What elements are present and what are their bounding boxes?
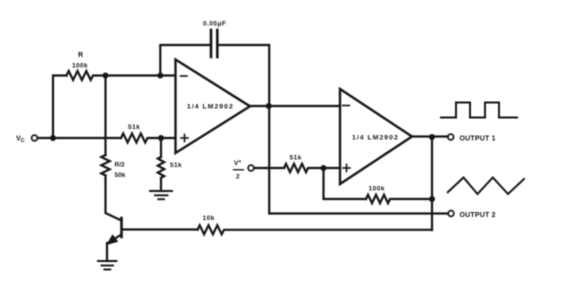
svg-text:51k: 51k: [290, 155, 302, 162]
wire capacitor to U1 output: [219, 45, 270, 106]
wire VC line: [38, 137, 122, 139]
resistor 100k: [366, 195, 432, 203]
svg-text:100k: 100k: [369, 186, 385, 193]
ground (under 51k): [150, 191, 172, 199]
svg-text:51k: 51k: [128, 124, 140, 131]
wire -in node to capacitor branch: [160, 45, 209, 76]
svg-text:1/4 LM2902: 1/4 LM2902: [352, 135, 399, 142]
svg-text:R: R: [78, 52, 83, 59]
op-amp U2 1/4 LM2902: [340, 89, 412, 184]
svg-text:100k: 100k: [72, 63, 88, 70]
wire +in U2 down to 100k: [324, 168, 367, 199]
svg-text:51k: 51k: [170, 162, 182, 169]
node dot (+in U1 / 51k junction): [158, 135, 164, 141]
node dot (cap branch junction): [157, 73, 163, 79]
wire U1 output to U2 -in: [250, 105, 340, 107]
wire U1 output down to OUTPUT 2 line: [269, 106, 448, 214]
emitter with arrow: [109, 235, 122, 243]
node dot (R right / -in junction): [103, 73, 109, 79]
svg-text:OUTPUT 1: OUTPUT 1: [460, 136, 496, 143]
terminal OUTPUT 2: [448, 211, 496, 219]
wire V+/2 to 51k: [254, 167, 284, 169]
node dot (VC input junction): [50, 135, 56, 141]
node dot (U2 output): [429, 134, 435, 140]
minus symbol U2: [343, 105, 350, 107]
plus symbol U2: [343, 165, 350, 172]
terminal VC: [16, 135, 37, 144]
resistor 10k: [198, 225, 433, 234]
wire +in node to 51k ground resistor: [160, 138, 162, 157]
svg-text:50k: 50k: [115, 172, 126, 179]
square wave symbol: [441, 103, 517, 118]
node dot (+in U2 junction): [321, 165, 327, 171]
wire VC to R: [53, 76, 67, 139]
wire R/2 branch (from -in node down to transistor collector): [104, 76, 106, 156]
transistor Q1: [106, 218, 121, 261]
minus symbol U1: [181, 75, 188, 77]
base bar: [120, 218, 123, 237]
svg-text:2: 2: [236, 174, 240, 181]
resistor 51k (to ground): [158, 157, 164, 178]
resistor 51k (top, to +in of U1): [121, 134, 175, 143]
resistor R 100k: [67, 71, 176, 80]
svg-text:1/4 LM2902: 1/4 LM2902: [187, 104, 234, 111]
svg-text:R/2: R/2: [115, 162, 126, 169]
svg-text:0.05μF: 0.05μF: [203, 21, 226, 28]
wire to ground: [160, 178, 162, 191]
resistor 51k (to +in U2): [284, 164, 340, 172]
capacitor 0.05uF: [211, 30, 217, 57]
terminal V+/2: [234, 159, 254, 181]
resistor R/2 50k: [101, 155, 109, 175]
node dot (U1 output): [266, 103, 272, 109]
wire base to 10k: [123, 228, 198, 230]
triangle wave symbol: [448, 178, 524, 195]
svg-text:OUTPUT 2: OUTPUT 2: [460, 212, 496, 219]
plus symbol U1: [181, 135, 188, 142]
terminal OUTPUT 1: [448, 134, 496, 142]
ground (under transistor): [98, 261, 117, 270]
node dot (100k / output junction): [429, 196, 435, 202]
wire U2 output: [412, 135, 448, 137]
op-amp U1 1/4 LM2902: [176, 60, 251, 154]
wire R/2 to transistor collector: [106, 175, 122, 220]
svg-text:10k: 10k: [203, 215, 215, 222]
wire U2 output down to 10k line: [431, 137, 433, 230]
